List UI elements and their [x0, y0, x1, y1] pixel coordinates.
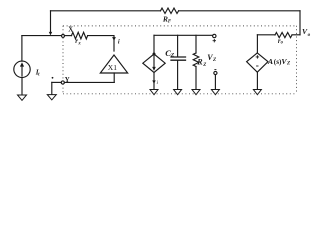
svg-text:Y: Y: [65, 77, 70, 84]
svg-text:Z: Z: [286, 61, 291, 67]
svg-text:i: i: [118, 38, 120, 45]
svg-text:o: o: [281, 41, 284, 46]
svg-text:Z: Z: [212, 57, 217, 63]
svg-text:X: X: [68, 26, 73, 33]
svg-text:o: o: [308, 32, 311, 38]
svg-text:i: i: [157, 80, 159, 86]
svg-text:A: A: [267, 57, 273, 66]
svg-text:Z: Z: [202, 63, 206, 68]
svg-text:x: x: [77, 41, 81, 46]
svg-text:t: t: [38, 72, 40, 77]
svg-text:F: F: [168, 19, 172, 24]
svg-text:X1: X1: [108, 63, 117, 72]
svg-text:R: R: [196, 57, 203, 66]
svg-text:Z: Z: [170, 52, 175, 58]
